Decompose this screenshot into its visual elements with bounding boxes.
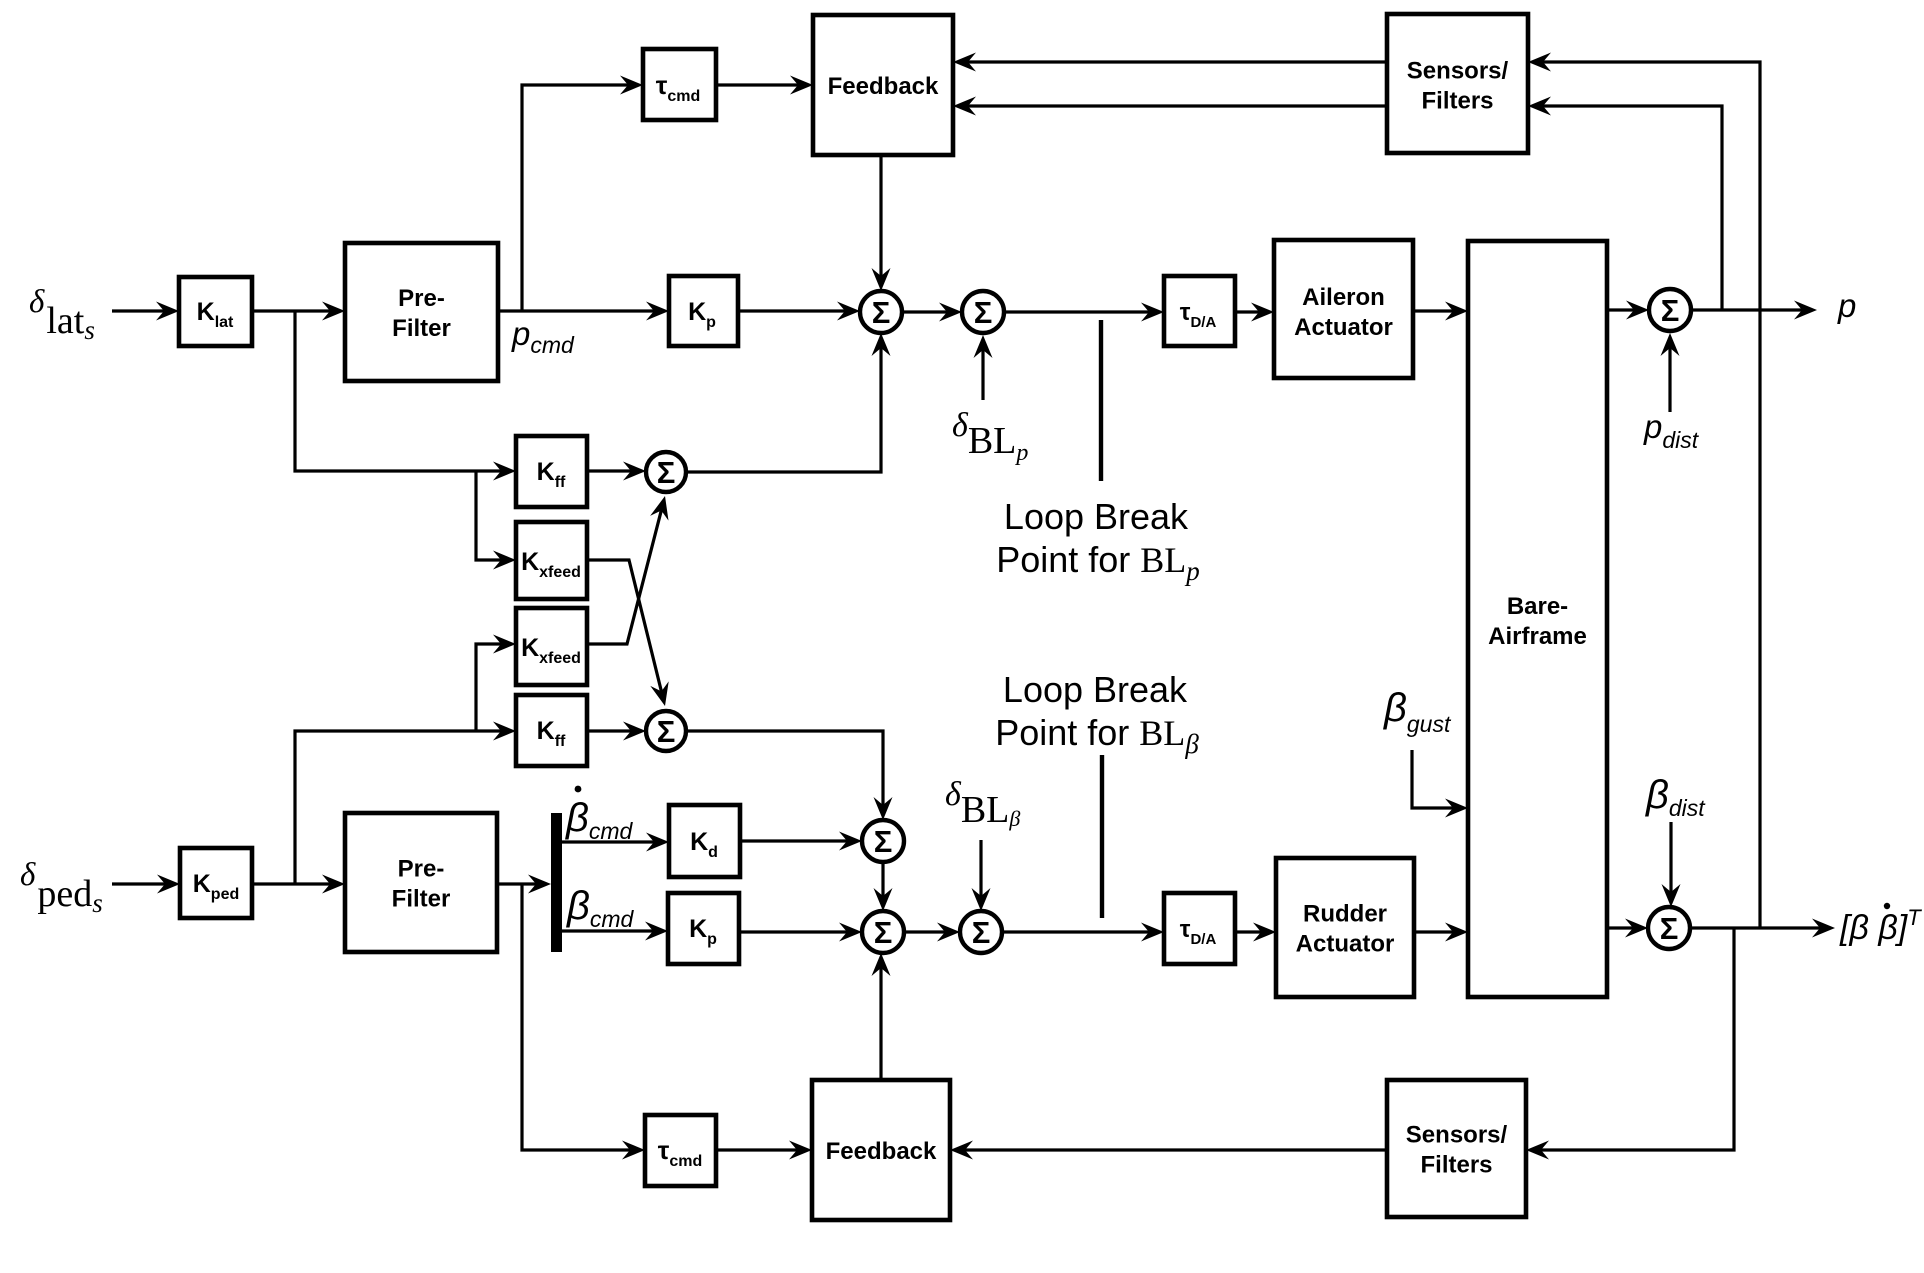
block Pre-Filter (roll) <box>345 243 498 381</box>
gain block K_ped <box>180 848 252 918</box>
block tau_cmd (roll) <box>643 49 716 120</box>
svg-text:Sensors/: Sensors/ <box>1407 58 1509 85</box>
wire: p_dist into sum3 <box>1661 333 1680 412</box>
block Pre-Filter (yaw) <box>345 813 497 952</box>
wire: beta output to bottom Sensors/Filters <box>1526 928 1734 1160</box>
summing junction sum3 (p disturbance) <box>1649 289 1691 331</box>
wire: Rudder Actuator to Bare-Airframe <box>1414 923 1468 942</box>
block tau_D/A (yaw) <box>1164 893 1235 964</box>
gain block K_xfeed (ped to roll) <box>516 608 587 685</box>
gain block K_ff (roll) <box>516 436 587 507</box>
summing junction sum5 (yaw feedforward) <box>646 711 686 751</box>
svg-text:Σ: Σ <box>972 915 991 950</box>
wire: delta_BL_beta into sum8 <box>972 840 991 911</box>
gain block K_xfeed (lat to yaw) <box>516 522 587 599</box>
svg-text:Filters: Filters <box>1421 88 1493 115</box>
summing junction sum4 (roll feedforward) <box>646 452 686 492</box>
wire: beta_gust into Bare-Airframe <box>1412 750 1468 818</box>
wire: tau_cmd to Feedback (yaw) <box>716 1141 812 1160</box>
svg-text:Actuator: Actuator <box>1296 931 1395 958</box>
wire: K_p to sum1 <box>738 302 860 321</box>
svg-text:Bare-: Bare- <box>1507 593 1568 620</box>
wire: p output riser to Sensors/Filters input <box>1528 97 1722 311</box>
wire: Bare-Airframe to sum9 <box>1607 919 1648 938</box>
svg-text:Loop Break: Loop Break <box>1003 669 1188 710</box>
wire: demux to K_p (yaw) <box>562 922 668 941</box>
wire: delta_ped_s to K_ped <box>112 875 180 894</box>
wire: beta_dist into sum9 <box>1662 822 1681 907</box>
svg-text:Actuator: Actuator <box>1294 314 1393 341</box>
summing junction sum9 (beta disturbance) <box>1648 907 1690 949</box>
block Sensors/Filters (top) <box>1387 14 1528 153</box>
label Loop Break Point for BL_p <box>996 496 1200 586</box>
wire: K_xfeed cross up to sum4 <box>587 496 669 644</box>
svg-text:p: p <box>1837 287 1856 324</box>
wire: tau_cmd to Feedback (roll) <box>716 76 813 95</box>
svg-text:Σ: Σ <box>657 455 676 490</box>
wire: bottom Sensors/Filters to Feedback (yaw) <box>950 1141 1387 1160</box>
output wire p <box>1691 301 1817 320</box>
wire: sum6 to sum7 <box>874 862 893 911</box>
svg-text:Point for BLβ: Point for BLβ <box>995 712 1199 759</box>
svg-text:Σ: Σ <box>874 915 893 950</box>
svg-text:Σ: Σ <box>1661 293 1680 328</box>
gain block K_p (roll) <box>669 276 738 346</box>
label Loop Break Point for BL_beta <box>995 669 1199 759</box>
wire: K_ff to sum4 <box>587 462 646 481</box>
wire: Feedback to sum1 <box>872 155 891 291</box>
svg-text:Σ: Σ <box>974 295 993 330</box>
wire: branch to K_xfeed (ped input) <box>476 635 516 732</box>
svg-text:Filters: Filters <box>1420 1152 1492 1179</box>
svg-text:Filter: Filter <box>392 886 451 913</box>
wire: delta_BL_p into sum2 <box>974 335 993 400</box>
wire: Pre-Filter to K_p <box>498 302 669 321</box>
svg-text:Pre-: Pre- <box>398 856 445 883</box>
wire: sum8 to tau_D/A (yaw) <box>1002 923 1164 942</box>
block tau_cmd (yaw) <box>645 1115 716 1186</box>
wire: Sensors/Filters to Feedback (second path) <box>953 97 1387 116</box>
wire: K_ped to Pre-Filter (yaw) <box>252 875 345 894</box>
gain block K_p (yaw) <box>668 893 739 964</box>
svg-text:Aileron: Aileron <box>1302 284 1385 311</box>
wire: demux to K_d <box>562 833 669 852</box>
svg-text:Feedback: Feedback <box>828 73 939 100</box>
wire: K_d to sum6 <box>740 832 862 851</box>
loop break marker for BL_p <box>1099 320 1103 481</box>
demux bar <box>551 813 562 952</box>
output label [beta betadot]T <box>1839 903 1922 947</box>
svg-text:Feedback: Feedback <box>826 1138 937 1165</box>
wire: beta output riser to Sensors/Filters input <box>1528 53 1760 929</box>
svg-text:Airframe: Airframe <box>1488 623 1587 650</box>
svg-text:Pre-: Pre- <box>398 285 445 312</box>
svg-text:Σ: Σ <box>874 824 893 859</box>
block Rudder Actuator <box>1276 858 1414 997</box>
summing junction sum7 (yaw error) <box>862 911 904 953</box>
wire: tau_D/A to Aileron Actuator <box>1235 303 1274 322</box>
wire: K_xfeed cross down to sum5 <box>587 560 669 706</box>
block Bare-Airframe <box>1468 241 1607 997</box>
wire: K_p to sum7 <box>739 923 862 942</box>
wire: tau_D/A to Rudder Actuator <box>1235 923 1276 942</box>
svg-text:Rudder: Rudder <box>1303 901 1387 928</box>
wire: Sensors/Filters to Feedback (p path) <box>953 53 1387 72</box>
wire: branch to K_xfeed (lat input) <box>476 471 516 570</box>
output wire beta vector <box>1690 919 1835 938</box>
wire: sum4 to sum1 (feedforward up) <box>686 333 891 472</box>
block tau_D/A (roll) <box>1164 276 1235 346</box>
summing junction sum1 (roll error) <box>860 291 902 333</box>
summing junction sum6 (beta-dot) <box>862 820 904 862</box>
svg-text:Σ: Σ <box>1660 911 1679 946</box>
wire: Feedback to sum7 (yaw) <box>872 953 891 1080</box>
loop break marker for BL_beta <box>1100 755 1104 918</box>
svg-text:Point for BLp: Point for BLp <box>996 539 1200 586</box>
wire: branch down to tau_cmd (yaw) <box>522 884 645 1160</box>
svg-text:Σ: Σ <box>657 714 676 749</box>
summing junction sum8 (BL_beta injection) <box>960 911 1002 953</box>
block Aileron Actuator <box>1274 240 1413 378</box>
svg-text:Filter: Filter <box>392 315 451 342</box>
label beta_dot_cmd <box>565 786 634 844</box>
gain block K_lat <box>179 277 252 346</box>
wire: sum7 to sum8 <box>904 923 960 942</box>
wire: sum2 to tau_D/A (roll) <box>1004 303 1164 322</box>
wire: Aileron Actuator to Bare-Airframe <box>1413 302 1468 321</box>
summing junction sum2 (BL_p injection) <box>962 291 1004 333</box>
wire: sum1 to sum2 <box>902 303 962 322</box>
wire: Pre-Filter to demux bar <box>497 875 551 894</box>
svg-text:Sensors/: Sensors/ <box>1406 1122 1508 1149</box>
wire: Bare-Airframe to sum3 <box>1607 301 1649 320</box>
wire: K_lat branch to K_ff (roll) <box>295 311 516 481</box>
gain block K_ff (yaw) <box>516 695 587 766</box>
svg-text:Σ: Σ <box>872 295 891 330</box>
wire: delta_lat_s to K_lat <box>112 302 179 321</box>
wire: K_ped branch to K_ff (yaw) <box>295 722 516 885</box>
svg-text:Loop Break: Loop Break <box>1004 496 1189 537</box>
wire: branch up to tau_cmd (roll) <box>522 76 643 312</box>
block Feedback (roll) <box>813 15 953 155</box>
block Sensors/Filters (bottom) <box>1387 1080 1526 1217</box>
wire: sum5 to sum6 (feedforward down) <box>686 731 893 820</box>
gain block K_d <box>669 805 740 877</box>
wire: K_lat to Pre-Filter <box>252 302 345 321</box>
block Feedback (yaw) <box>812 1080 950 1220</box>
wire: K_ff to sum5 <box>587 722 646 741</box>
